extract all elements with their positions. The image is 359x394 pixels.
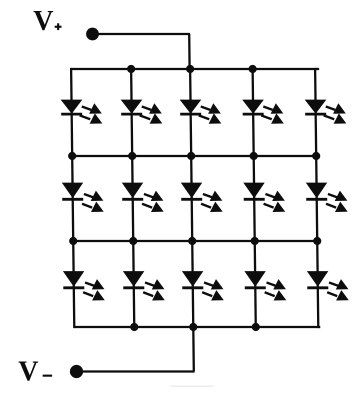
LED row1 col4 <box>243 101 283 124</box>
wire row2 rail <box>72 155 319 157</box>
LED row2 col2 <box>122 184 162 212</box>
LED row1 col5 <box>305 101 345 124</box>
wire column 1 <box>71 68 74 328</box>
junction row3 rail col1 <box>69 237 77 245</box>
junction top rail col3 <box>186 65 194 73</box>
wire column 2 <box>131 69 134 327</box>
scan smudge <box>170 386 214 388</box>
wire top rail <box>71 68 319 70</box>
junction row2 rail col1 <box>68 152 76 160</box>
junction bottom rail col4 <box>252 323 260 331</box>
wire row3 rail <box>73 240 320 242</box>
LED row1 col3 <box>180 101 220 124</box>
svg-text:V: V <box>33 6 53 37</box>
terminal dot V- <box>70 365 83 378</box>
terminal dot V+ <box>86 28 99 41</box>
wire V- feed vertical <box>192 327 195 372</box>
junction row2 rail col2 <box>128 152 136 160</box>
junction bottom rail col2 <box>130 323 138 331</box>
LED row2 col3 <box>181 184 221 212</box>
LED row3 col2 <box>123 272 163 300</box>
junction row2 rail col3 <box>187 152 195 160</box>
LED row1 col1 <box>61 101 101 124</box>
junction top rail col4 <box>248 65 256 73</box>
LED row3 col4 <box>245 272 285 300</box>
LED row2 col4 <box>244 184 284 212</box>
LED row3 col3 <box>182 272 222 300</box>
wire V+ horizontal <box>96 33 190 35</box>
wire V+ feed vertical <box>188 34 191 69</box>
junction row3 rail col4 <box>251 237 259 245</box>
LED row2 col1 <box>62 184 102 212</box>
LED row3 col1 <box>63 272 103 300</box>
junction row2 rail col4 <box>250 152 258 160</box>
junction row3 rail col3 <box>188 237 196 245</box>
wire column 4 <box>253 69 256 327</box>
LED row1 col2 <box>121 101 161 124</box>
junction row2 rail col5 <box>312 152 320 160</box>
junction top rail col2 <box>127 65 135 73</box>
LED row3 col5 <box>307 272 347 300</box>
junction bottom rail col3 <box>189 323 197 331</box>
wire column 3 <box>190 69 193 327</box>
LED row2 col5 <box>306 184 346 212</box>
junction row3 rail col2 <box>129 237 137 245</box>
svg-text:V: V <box>18 357 38 388</box>
wire bottom rail <box>74 326 320 328</box>
wire column 5 <box>315 68 318 328</box>
wire V- horizontal <box>80 370 195 372</box>
junction row3 rail col5 <box>313 237 321 245</box>
